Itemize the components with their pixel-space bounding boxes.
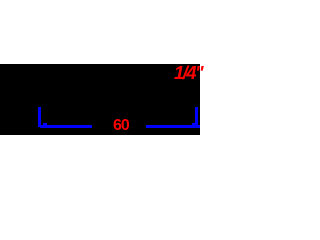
right arrowhead bbox=[192, 123, 195, 126]
label 60 bbox=[113, 118, 129, 134]
dimension line left segment bbox=[40, 125, 92, 128]
label 1/4 inch bbox=[174, 64, 202, 83]
diagram background band bbox=[0, 64, 200, 135]
left extension tick bbox=[38, 107, 41, 127]
left arrowhead bbox=[43, 123, 47, 126]
dimension line right segment bbox=[146, 125, 201, 128]
right extension tick bbox=[195, 107, 198, 127]
board edge line bbox=[0, 100, 200, 102]
